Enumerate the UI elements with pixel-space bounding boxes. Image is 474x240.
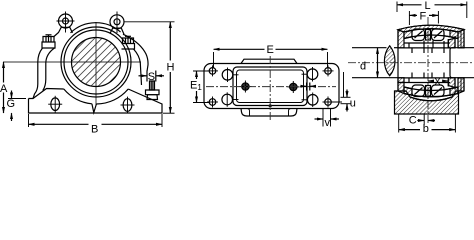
svg-text:H: H — [167, 62, 175, 74]
svg-text:d: d — [360, 61, 366, 73]
svg-text:G: G — [7, 98, 16, 110]
svg-text:F: F — [420, 11, 427, 23]
svg-text:b: b — [423, 123, 429, 135]
svg-text:E1: E1 — [190, 80, 202, 93]
svg-text:B: B — [91, 124, 98, 136]
svg-text:u: u — [350, 98, 356, 110]
svg-text:x: x — [435, 76, 441, 88]
svg-text:E: E — [267, 44, 274, 56]
svg-text:A: A — [0, 83, 8, 95]
svg-text:v: v — [325, 117, 331, 129]
svg-text:S: S — [148, 71, 155, 83]
svg-text:C: C — [409, 115, 417, 127]
